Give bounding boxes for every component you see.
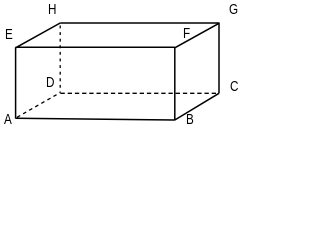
wire hidden edge A-D (dashed diagonal): [17, 93, 60, 118]
cuboid ABCDEFGH wireframe: [0, 0, 242, 134]
wire edge E-F (top front): [16, 46, 175, 48]
wire edge B-C (bottom right diagonal): [175, 93, 219, 120]
node B label: [186, 112, 194, 127]
node C label: [230, 79, 238, 94]
wire hidden edge D-C (dashed horizontal): [61, 92, 219, 94]
wire edge F-B (middle vertical): [174, 47, 176, 120]
wire edge A-B (bottom front): [16, 118, 175, 120]
node H label: [48, 2, 56, 17]
node A label: [4, 112, 12, 127]
wire edge G-C (right vertical): [218, 23, 220, 93]
node G label: [229, 2, 238, 17]
wire edge E-H (top left diagonal): [16, 23, 61, 48]
wire edge F-G (top right diagonal): [175, 23, 219, 48]
wire edge H-G (top back): [60, 22, 219, 24]
node E label: [5, 27, 13, 42]
node D label: [46, 75, 54, 90]
wire hidden edge H-D (dashed vertical): [59, 26, 61, 93]
wire edge E-A (left vertical): [15, 47, 17, 118]
node F label: [183, 26, 190, 41]
